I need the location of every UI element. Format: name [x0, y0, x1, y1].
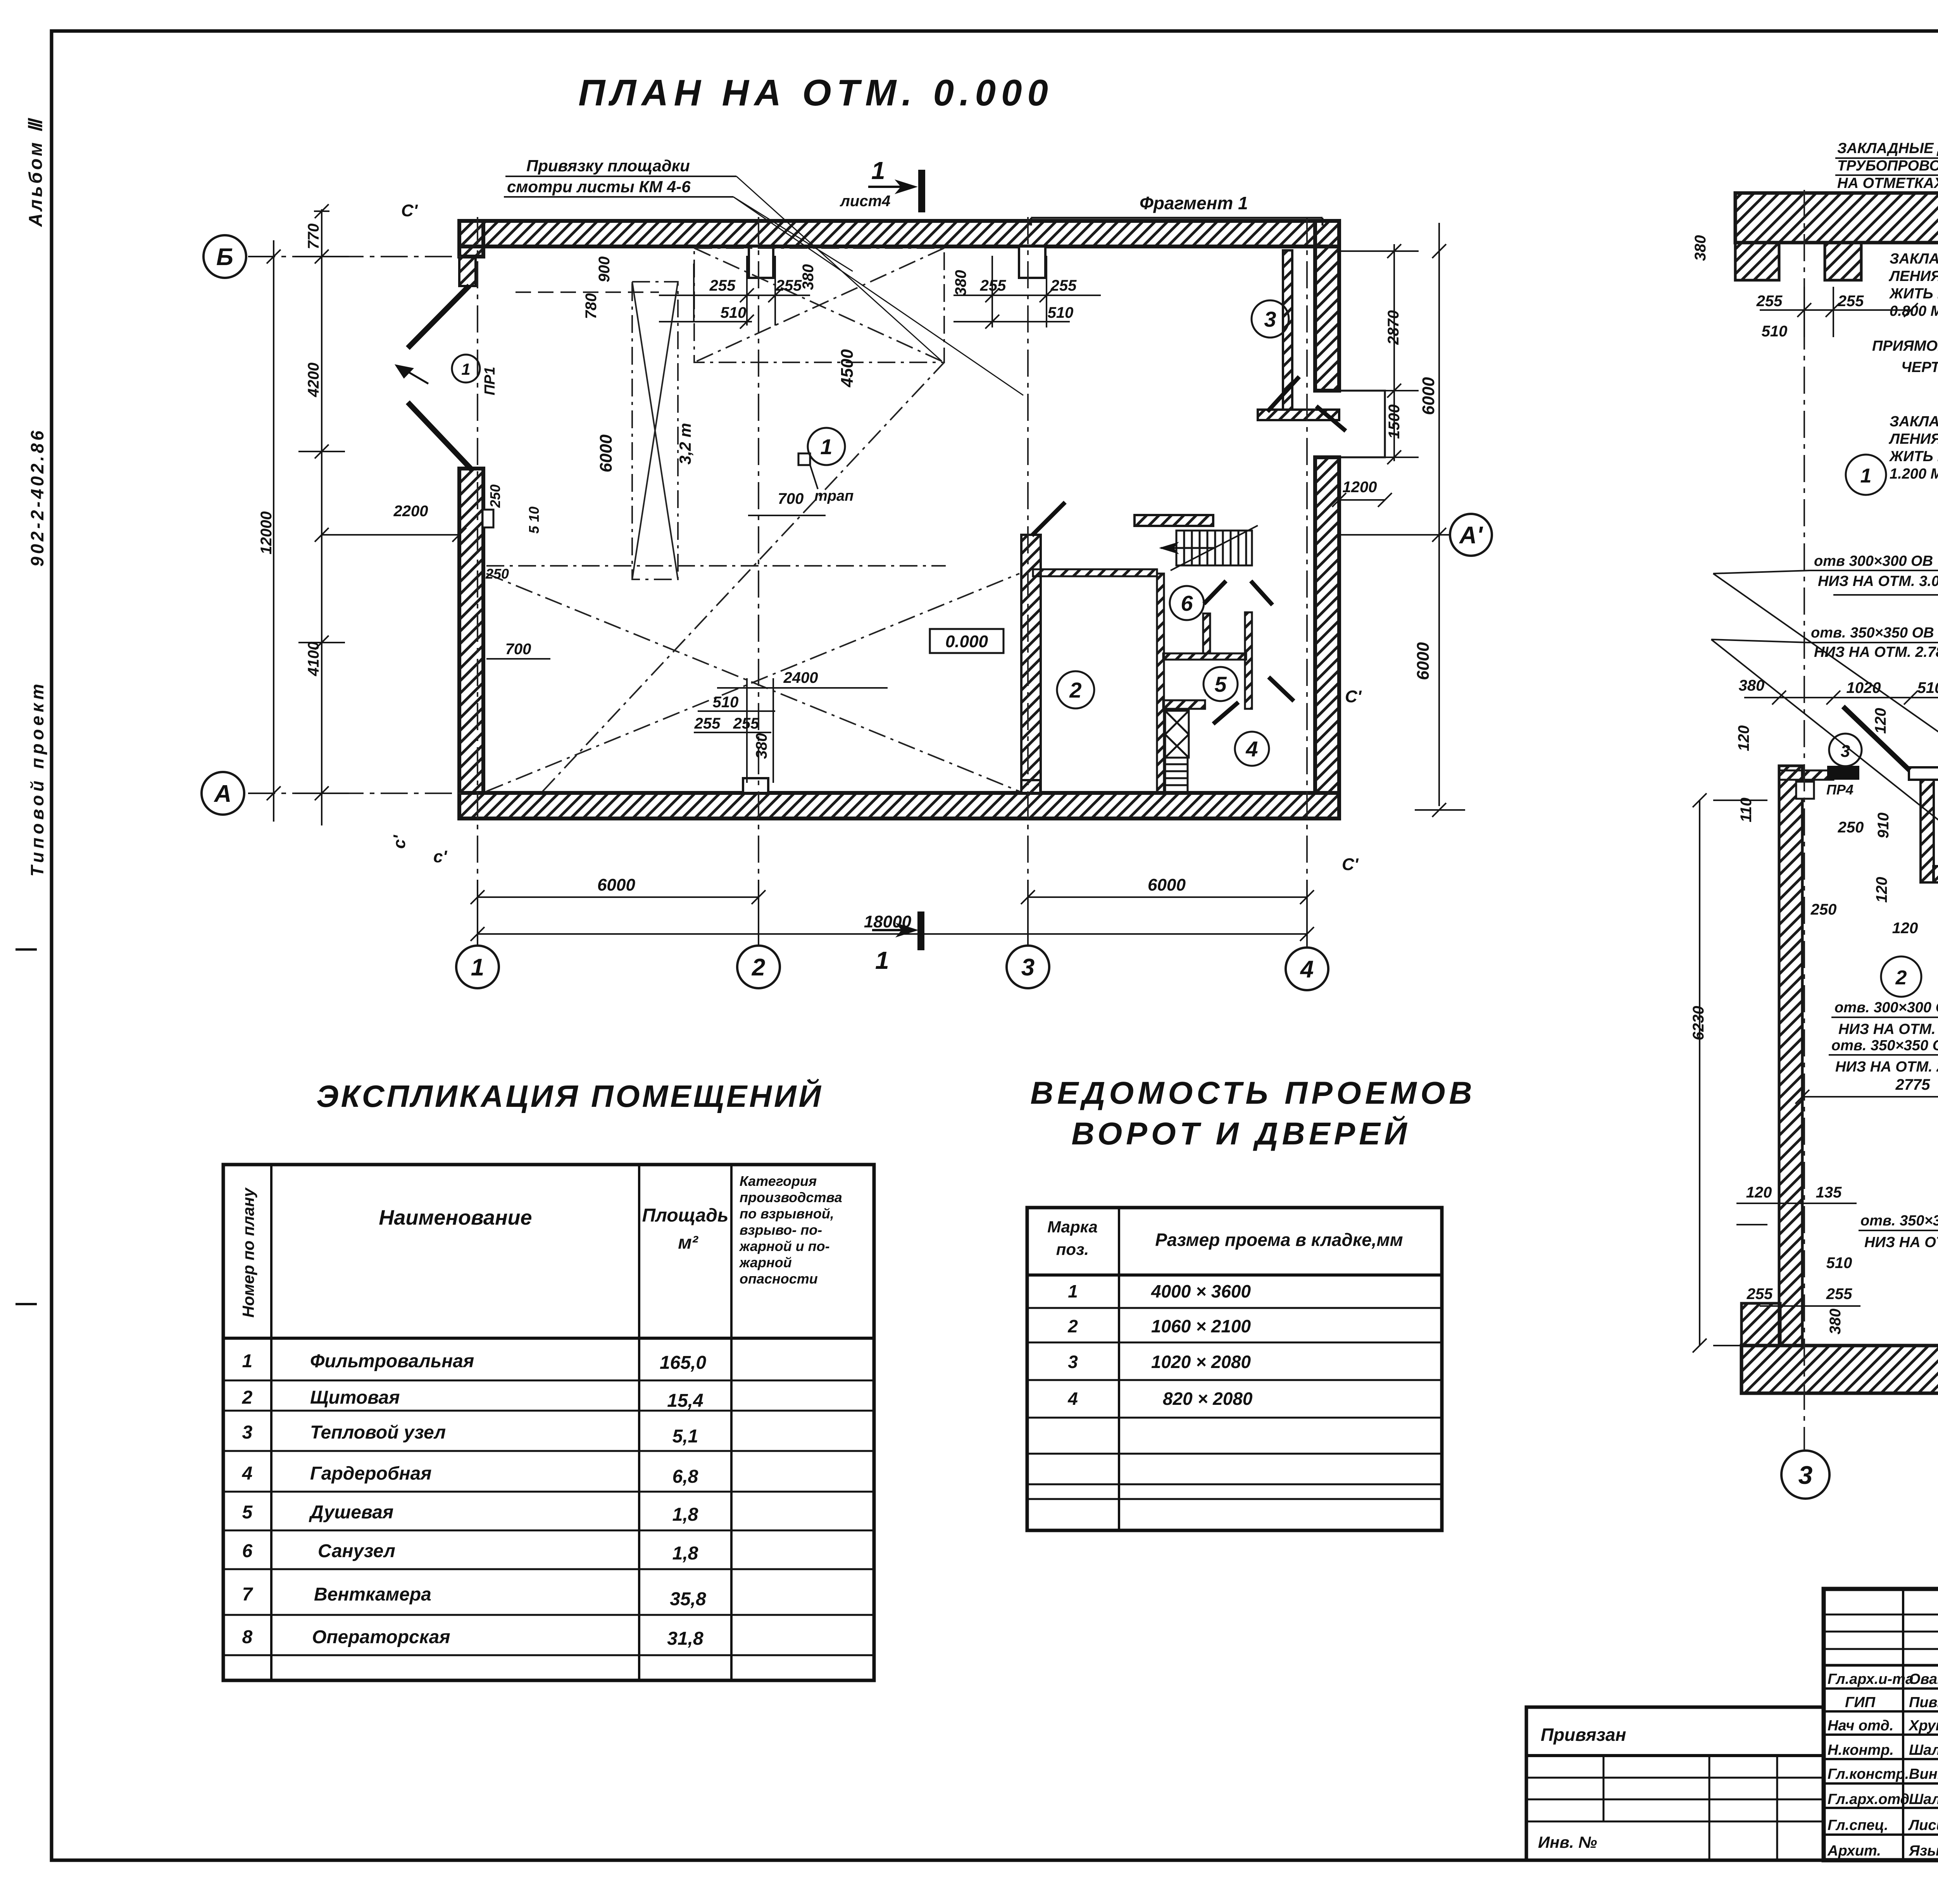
- svg-text:700: 700: [778, 490, 804, 507]
- svg-text:380: 380: [1692, 235, 1709, 261]
- svg-text:3: 3: [1798, 1461, 1813, 1489]
- svg-text:165,0: 165,0: [660, 1353, 706, 1373]
- svg-text:ПЛАН НА ОТМ. 0.000: ПЛАН НА ОТМ. 0.000: [578, 72, 1053, 114]
- svg-text:3: 3: [1264, 307, 1276, 331]
- svg-text:ЧЕРТЕЖ КЖ15: ЧЕРТЕЖ КЖ15: [1901, 359, 1938, 376]
- svg-text:С': С': [1345, 687, 1362, 706]
- svg-text:0.800 М-4: 0.800 М-4: [1890, 303, 1938, 319]
- svg-text:6000: 6000: [1419, 377, 1438, 415]
- svg-text:Венткамера: Венткамера: [314, 1584, 431, 1605]
- svg-text:255: 255: [776, 277, 802, 294]
- svg-text:опасности: опасности: [740, 1271, 818, 1287]
- svg-text:ПР4: ПР4: [1826, 782, 1854, 798]
- svg-text:5,1: 5,1: [672, 1426, 698, 1447]
- svg-text:2775: 2775: [1895, 1076, 1931, 1093]
- svg-text:ЖИТЬ В КЛАДКУ НА ОТМЕТКЕ: ЖИТЬ В КЛАДКУ НА ОТМЕТКЕ: [1889, 286, 1938, 302]
- svg-text:6000: 6000: [597, 875, 635, 894]
- svg-text:255: 255: [733, 715, 759, 732]
- svg-text:НИЗ НА ОТМ. 2.780: НИЗ НА ОТМ. 2.780: [1835, 1059, 1938, 1075]
- svg-text:ВЕДОМОСТЬ ПРОЕМОВ: ВЕДОМОСТЬ ПРОЕМОВ: [1030, 1075, 1476, 1111]
- svg-text:производства: производства: [740, 1189, 842, 1205]
- svg-text:110: 110: [1738, 798, 1755, 822]
- svg-text:770: 770: [305, 224, 322, 250]
- svg-text:1: 1: [461, 360, 470, 378]
- svg-text:0.000: 0.000: [945, 632, 988, 651]
- svg-text:820 × 2080: 820 × 2080: [1163, 1389, 1253, 1409]
- svg-text:ГИП: ГИП: [1845, 1694, 1876, 1711]
- svg-text:4: 4: [1245, 737, 1258, 761]
- svg-text:1: 1: [820, 434, 832, 459]
- svg-text:ПР1: ПР1: [482, 367, 498, 395]
- svg-text:НИЗ НА ОТМ. 3.000: НИЗ НА ОТМ. 3.000: [1818, 573, 1938, 589]
- svg-text:Фрагмент 1: Фрагмент 1: [1140, 193, 1248, 213]
- svg-text:255: 255: [1826, 1285, 1852, 1303]
- svg-text:1,8: 1,8: [672, 1504, 698, 1525]
- svg-text:4: 4: [1300, 956, 1314, 983]
- svg-text:4100: 4100: [305, 642, 322, 677]
- svg-text:с': с': [390, 835, 409, 849]
- svg-text:6230: 6230: [1690, 1006, 1707, 1041]
- svg-text:Душевая: Душевая: [309, 1502, 393, 1523]
- svg-text:250: 250: [1810, 901, 1837, 918]
- svg-text:4: 4: [1067, 1389, 1078, 1409]
- svg-text:ПРИЯМОК: ПРИЯМОК: [1872, 338, 1938, 354]
- svg-text:4: 4: [242, 1463, 253, 1484]
- svg-text:255: 255: [1050, 277, 1077, 294]
- svg-text:1200: 1200: [1343, 479, 1377, 496]
- svg-text:С': С': [401, 201, 418, 220]
- svg-text:15,4: 15,4: [667, 1391, 703, 1411]
- svg-text:510: 510: [721, 304, 747, 321]
- svg-text:Наименование: Наименование: [379, 1206, 532, 1229]
- svg-text:ЭКСПЛИКАЦИЯ ПОМЕЩЕНИЙ: ЭКСПЛИКАЦИЯ ПОМЕЩЕНИЙ: [316, 1079, 823, 1113]
- svg-text:120: 120: [1873, 877, 1890, 903]
- svg-text:ЛЕНИЯ ТРУБОПРОВОДОВ ЗАЛО-: ЛЕНИЯ ТРУБОПРОВОДОВ ЗАЛО-: [1888, 431, 1938, 447]
- svg-text:4200: 4200: [305, 363, 322, 398]
- svg-text:Б: Б: [216, 244, 233, 271]
- svg-text:255: 255: [1756, 293, 1783, 310]
- svg-text:Типовой проект: Типовой проект: [27, 681, 47, 877]
- svg-text:Гардеробная: Гардеробная: [310, 1463, 432, 1484]
- svg-text:2: 2: [1069, 678, 1081, 702]
- svg-text:Гл.арх.и-та: Гл.арх.и-та: [1828, 1671, 1914, 1687]
- svg-text:Ованесян: Ованесян: [1909, 1671, 1938, 1687]
- svg-text:Шаломеев: Шаломеев: [1909, 1742, 1938, 1758]
- svg-text:255: 255: [709, 277, 736, 294]
- svg-text:3: 3: [1021, 954, 1035, 981]
- svg-text:Щитовая: Щитовая: [310, 1387, 400, 1408]
- svg-text:902-2-402.86: 902-2-402.86: [27, 428, 47, 567]
- svg-text:поз.: поз.: [1056, 1240, 1089, 1258]
- svg-text:Архит.: Архит.: [1827, 1843, 1881, 1859]
- svg-text:Номер по плану: Номер по плану: [239, 1187, 257, 1318]
- svg-text:380: 380: [1827, 1309, 1844, 1335]
- svg-text:255: 255: [694, 715, 721, 732]
- svg-text:510: 510: [1048, 304, 1074, 321]
- svg-text:120: 120: [1892, 920, 1918, 937]
- svg-text:8: 8: [242, 1627, 253, 1647]
- svg-text:1: 1: [471, 954, 484, 981]
- svg-text:2400: 2400: [783, 669, 818, 686]
- svg-text:1,8: 1,8: [672, 1543, 698, 1564]
- svg-text:отв. 350×350 ОВ: отв. 350×350 ОВ: [1860, 1213, 1938, 1229]
- svg-text:900: 900: [596, 257, 613, 283]
- svg-text:6000: 6000: [1148, 875, 1186, 894]
- svg-text:Санузел: Санузел: [318, 1541, 395, 1561]
- svg-text:250: 250: [1838, 819, 1864, 836]
- svg-text:лист4: лист4: [840, 193, 890, 210]
- svg-text:12000: 12000: [258, 511, 275, 554]
- svg-text:31,8: 31,8: [667, 1628, 703, 1649]
- svg-text:Хрупало: Хрупало: [1908, 1718, 1938, 1734]
- svg-text:Фильтровальная: Фильтровальная: [310, 1351, 474, 1372]
- svg-text:2200: 2200: [393, 503, 428, 520]
- svg-text:НИЗ НА ОТМ. 3.000: НИЗ НА ОТМ. 3.000: [1838, 1021, 1938, 1037]
- svg-text:6: 6: [1181, 591, 1193, 615]
- svg-text:Тепловой узел: Тепловой узел: [310, 1422, 446, 1443]
- svg-text:2: 2: [1895, 967, 1907, 989]
- svg-text:м²: м²: [678, 1232, 699, 1253]
- svg-text:жарной: жарной: [739, 1254, 792, 1270]
- svg-text:с': с': [433, 847, 447, 866]
- svg-text:2: 2: [1067, 1316, 1078, 1336]
- svg-text:ВОРОТ И ДВЕРЕЙ: ВОРОТ И ДВЕРЕЙ: [1071, 1115, 1411, 1151]
- svg-text:1060 × 2100: 1060 × 2100: [1151, 1316, 1251, 1336]
- svg-text:3: 3: [1068, 1352, 1078, 1372]
- svg-text:жарной и по-: жарной и по-: [739, 1238, 830, 1254]
- svg-text:Винклер: Винклер: [1909, 1766, 1938, 1782]
- svg-text:700: 700: [505, 641, 531, 658]
- svg-text:Язычьян: Язычьян: [1909, 1843, 1938, 1859]
- svg-text:ЛЕНИЯ ТРУБОПРОВОДОВ ЗАЛО-: ЛЕНИЯ ТРУБОПРОВОДОВ ЗАЛО-: [1888, 268, 1938, 284]
- svg-text:Лисичкин: Лисичкин: [1908, 1817, 1938, 1833]
- svg-text:Марка: Марка: [1047, 1218, 1098, 1236]
- svg-text:4500: 4500: [838, 349, 857, 388]
- svg-text:ЗАКЛАДНЫЕ ДЕТАЛИ ДЛЯ КРЕП-: ЗАКЛАДНЫЕ ДЕТАЛИ ДЛЯ КРЕП-: [1890, 414, 1938, 430]
- svg-text:255: 255: [1747, 1285, 1773, 1303]
- svg-text:2870: 2870: [1385, 310, 1402, 345]
- svg-text:510: 510: [713, 694, 739, 711]
- svg-text:380: 380: [800, 264, 817, 290]
- svg-text:5 10: 5 10: [526, 507, 542, 534]
- svg-text:отв 300×300 ОВ: отв 300×300 ОВ: [1814, 553, 1933, 569]
- svg-text:910: 910: [1875, 813, 1892, 839]
- svg-text:1: 1: [1068, 1281, 1078, 1301]
- svg-text:Н.контр.: Н.контр.: [1828, 1742, 1894, 1758]
- svg-text:Гл.арх.отд: Гл.арх.отд: [1828, 1791, 1909, 1808]
- svg-text:взрыво- по-: взрыво- по-: [740, 1222, 822, 1238]
- svg-text:1: 1: [242, 1351, 253, 1372]
- svg-text:5: 5: [242, 1502, 253, 1523]
- svg-text:Операторская: Операторская: [312, 1627, 450, 1647]
- svg-text:3: 3: [242, 1422, 253, 1443]
- svg-text:6000: 6000: [597, 434, 616, 472]
- svg-text:255: 255: [1838, 293, 1864, 310]
- svg-text:1020 × 2080: 1020 × 2080: [1151, 1352, 1251, 1372]
- svg-text:Шаломеев: Шаломеев: [1909, 1791, 1938, 1808]
- svg-text:отв. 300×300 ОВ: отв. 300×300 ОВ: [1835, 999, 1938, 1016]
- svg-text:Категория: Категория: [740, 1173, 817, 1189]
- svg-text:НИЗ НА ОТМ. 2.430: НИЗ НА ОТМ. 2.430: [1864, 1234, 1938, 1251]
- svg-text:380: 380: [753, 733, 770, 759]
- svg-text:6: 6: [242, 1541, 253, 1561]
- svg-text:7: 7: [242, 1584, 253, 1605]
- svg-text:255: 255: [980, 277, 1006, 294]
- svg-text:1: 1: [1860, 465, 1872, 487]
- svg-text:1: 1: [871, 157, 885, 184]
- svg-text:4000 × 3600: 4000 × 3600: [1151, 1281, 1251, 1301]
- svg-text:35,8: 35,8: [670, 1589, 706, 1609]
- svg-text:по взрывной,: по взрывной,: [740, 1206, 834, 1222]
- svg-text:ЗАКЛАДНЫЕ ДЕТАЛИ ДЛЯ КРЕПЛЕНИЯ: ЗАКЛАДНЫЕ ДЕТАЛИ ДЛЯ КРЕПЛЕНИЯ: [1837, 140, 1938, 157]
- svg-text:А: А: [214, 781, 232, 807]
- svg-text:ЗАКЛАДНЫЕ ДЕТАЛИ ДЛЯ КРЕП-: ЗАКЛАДНЫЕ ДЕТАЛИ ДЛЯ КРЕП-: [1890, 251, 1938, 267]
- svg-text:Привязку площадки: Привязку площадки: [526, 157, 690, 175]
- svg-text:Инв. №: Инв. №: [1538, 1833, 1597, 1851]
- svg-text:ЖИТЬ В КЛАДКУ НА ОТМЕТКЕ: ЖИТЬ В КЛАДКУ НА ОТМЕТКЕ: [1889, 448, 1938, 465]
- svg-text:250: 250: [485, 566, 509, 582]
- svg-text:510: 510: [1826, 1254, 1852, 1272]
- svg-text:1500: 1500: [1386, 405, 1403, 439]
- svg-text:С': С': [1342, 855, 1359, 874]
- svg-text:120: 120: [1872, 708, 1889, 734]
- svg-text:отв. 350×350 ОВ: отв. 350×350 ОВ: [1811, 625, 1934, 641]
- svg-text:Размер проема в кладке,мм: Размер проема в кладке,мм: [1155, 1230, 1403, 1250]
- svg-text:6000: 6000: [1414, 642, 1433, 680]
- svg-text:отв. 350×350 ОВ: отв. 350×350 ОВ: [1831, 1037, 1938, 1054]
- svg-text:ТРУБОПРОВОДОВ ЗАЛОЖИТЬ В КЛАДК: ТРУБОПРОВОДОВ ЗАЛОЖИТЬ В КЛАДКУ: [1837, 158, 1938, 174]
- svg-text:380: 380: [952, 270, 969, 296]
- svg-text:5: 5: [1214, 672, 1227, 696]
- svg-text:120: 120: [1746, 1184, 1772, 1201]
- svg-text:А': А': [1459, 522, 1483, 549]
- svg-text:6,8: 6,8: [672, 1466, 698, 1487]
- svg-text:Площадь: Площадь: [642, 1205, 729, 1226]
- svg-text:Гл.констр.: Гл.констр.: [1828, 1766, 1909, 1782]
- svg-text:1.200 М-4: 1.200 М-4: [1890, 466, 1938, 482]
- svg-text:135: 135: [1816, 1184, 1842, 1201]
- svg-text:2: 2: [752, 954, 765, 981]
- svg-text:510: 510: [1762, 323, 1788, 340]
- svg-text:1: 1: [875, 946, 889, 974]
- svg-text:250: 250: [487, 484, 503, 508]
- svg-text:510: 510: [1917, 679, 1938, 696]
- svg-text:3,2 т: 3,2 т: [676, 423, 694, 464]
- svg-text:Привязан: Привязан: [1541, 1725, 1626, 1745]
- svg-text:120: 120: [1735, 725, 1752, 751]
- svg-text:НА ОТМЕТКАХ 0.800 И 1.200 М-: НА ОТМЕТКАХ 0.800 И 1.200 М-4: [1837, 175, 1938, 191]
- svg-text:Гл.спец.: Гл.спец.: [1828, 1817, 1888, 1833]
- svg-text:трап: трап: [814, 488, 853, 504]
- svg-text:Пивторак: Пивторак: [1909, 1694, 1938, 1711]
- svg-text:Альбом Ⅲ: Альбом Ⅲ: [26, 117, 46, 227]
- svg-text:780: 780: [583, 293, 600, 319]
- svg-text:2: 2: [242, 1387, 253, 1408]
- svg-text:3: 3: [1841, 742, 1850, 761]
- svg-text:Нач отд.: Нач отд.: [1828, 1718, 1893, 1734]
- svg-text:смотри листы КМ 4-6: смотри листы КМ 4-6: [507, 177, 691, 196]
